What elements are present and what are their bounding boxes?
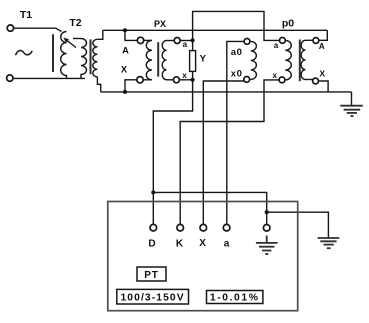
terminal circle a (box) — [223, 224, 230, 231]
node junction earth branch — [265, 210, 269, 214]
terminal circle T1 bottom — [7, 75, 13, 81]
core bar p0 — [299, 40, 301, 82]
ground G3 inside box — [256, 236, 278, 255]
svg-text:K: K — [176, 239, 184, 250]
wire ground link to box earth terminal — [153, 192, 266, 224]
wire earth branch to ground G2 — [267, 212, 329, 237]
svg-text:p0: p0 — [282, 18, 294, 30]
svg-text:PX: PX — [154, 19, 166, 29]
svg-text:100/3-150V: 100/3-150V — [120, 292, 184, 303]
coil PX secondary — [162, 41, 166, 80]
terminal circle a0 — [244, 39, 250, 45]
core bar PX — [157, 42, 159, 76]
terminal circle p0 X — [313, 78, 319, 84]
coil step-up secondary — [93, 39, 98, 77]
svg-text:a: a — [224, 239, 230, 250]
coil p0 tertiary a0x0 — [251, 41, 257, 79]
AC source tilde — [16, 51, 33, 56]
wire p0 primary top — [306, 39, 314, 41]
svg-text:PT: PT — [144, 270, 158, 281]
wire top comparison loop — [193, 11, 280, 40]
wire PX x node down to D jog — [153, 80, 192, 224]
ground G1 — [340, 106, 363, 116]
svg-text:Y: Y — [200, 54, 207, 65]
svg-text:a: a — [274, 41, 279, 50]
svg-text:a: a — [183, 40, 188, 49]
wire step-up secondary bottom — [97, 77, 100, 92]
wire T1 bottom bus — [13, 77, 85, 79]
variac wiper arrow — [67, 40, 76, 47]
core bar T2 left — [52, 34, 54, 72]
wire Y top lead — [192, 40, 194, 50]
coil p0 primary — [301, 40, 305, 79]
svg-text:x: x — [182, 71, 187, 80]
terminal circle PX a — [174, 38, 180, 44]
svg-text:D: D — [148, 239, 155, 250]
node junction bottom bus PX-X — [123, 90, 127, 94]
terminal circle PX A — [137, 37, 143, 43]
svg-text:X: X — [121, 65, 128, 75]
wire PX primary coil top — [144, 39, 152, 41]
terminal circle K — [177, 224, 184, 231]
svg-text:x: x — [272, 71, 277, 80]
svg-text:A: A — [319, 41, 325, 51]
wire p0 X to bottom bus — [318, 81, 328, 92]
rating box accuracy — [207, 291, 263, 304]
wire bus corner to p0 A — [319, 30, 328, 40]
terminal circle p0 a — [280, 38, 286, 44]
coil p0 secondary — [285, 40, 291, 80]
coil T2 left (variac winding) — [61, 32, 67, 79]
svg-text:T2: T2 — [69, 17, 81, 29]
wire Y bottom lead — [192, 71, 194, 79]
wire PX a to node — [180, 40, 192, 42]
terminal circle PX x — [173, 77, 179, 83]
wire PX secondary bottom — [167, 79, 174, 81]
wire PX x to node — [179, 79, 192, 81]
wire ground G1 stub — [351, 92, 353, 106]
wire T2 secondary top stub — [73, 38, 81, 40]
node junction PX x / Y bottom — [191, 78, 195, 82]
node junction PX a / Y top — [191, 38, 195, 42]
terminal circle PX X — [137, 77, 143, 83]
wire T1 top to T2 coil — [14, 28, 62, 31]
wire top bus — [103, 29, 327, 31]
instrument box — [108, 202, 298, 311]
core bar T2 right — [90, 39, 92, 74]
ground G2 — [318, 238, 340, 248]
terminal circle T1 top — [7, 25, 13, 31]
wire PX secondary top — [167, 40, 175, 42]
svg-text:A: A — [122, 45, 129, 55]
wire PX primary coil bottom — [143, 79, 152, 81]
wire bottom bus — [101, 91, 352, 93]
wire PX A link — [125, 30, 137, 40]
node junction D wire / ground link — [151, 190, 155, 194]
rating box PT — [137, 267, 166, 281]
svg-text:X: X — [199, 238, 206, 249]
burden Y — [190, 51, 196, 72]
terminal circle D — [150, 224, 157, 231]
rating box voltage — [117, 289, 189, 304]
svg-text:T1: T1 — [20, 9, 32, 21]
terminal circle p0 x — [279, 77, 285, 83]
terminal circle x0 — [244, 77, 250, 83]
wire a0 down to box terminal a — [227, 41, 244, 224]
svg-text:a0: a0 — [231, 47, 243, 58]
wire step-up secondary top to bus — [97, 30, 102, 39]
node junction top bus PX-A — [123, 28, 127, 32]
terminal circle X (box) — [200, 224, 207, 231]
wire PX X link — [125, 80, 137, 92]
wire x0 coil stub — [250, 78, 251, 80]
terminal circle earth (box) — [263, 225, 270, 232]
wire x0 down to box terminal X — [203, 81, 244, 224]
terminal circle p0 A — [313, 38, 319, 44]
coil T2 right — [81, 39, 87, 79]
svg-text:1-0.01%: 1-0.01% — [210, 293, 260, 304]
wire p0 x to K jog — [180, 80, 279, 224]
wire p0 primary bottom — [306, 79, 313, 81]
svg-text:X: X — [320, 69, 326, 79]
svg-text:x0: x0 — [231, 69, 243, 80]
wire a0 coil stub — [249, 40, 252, 42]
coil PX primary — [146, 40, 152, 79]
